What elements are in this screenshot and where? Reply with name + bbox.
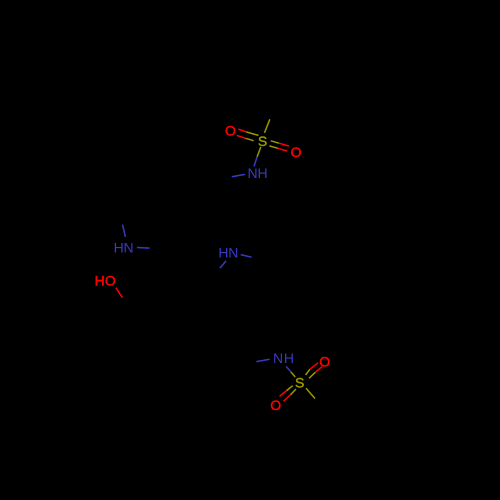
svg-text:N: N [248,165,258,181]
svg-text:S: S [258,133,267,149]
svg-text:N: N [124,239,134,255]
bond N1-C (N half) [232,174,245,176]
svg-text:N: N [228,245,238,261]
bond S1=O1 double bond line B [246,138,254,140]
bond S2-CH3 (S half) [306,388,315,398]
bond N2-C right stub [137,247,150,250]
bond S1-N1 (N half) [254,157,257,167]
bond N2-C up stub (indole NH left) [123,225,126,237]
svg-text:O: O [319,353,330,369]
bond S2=O4 double bond line A [306,369,310,375]
bond S1-CH3 (sulfonyl methyl, S half) [265,119,270,133]
svg-text:H: H [284,350,294,366]
bond N3-C down-left stub [220,261,226,268]
bond N3-C right stub (middle NH) [241,255,252,258]
svg-text:H: H [95,273,105,289]
bond O3-C stub (hydroxyl) [116,288,123,298]
bond S2=O4 double bond line B [309,372,315,378]
svg-text:O: O [105,273,116,289]
svg-text:O: O [270,397,281,413]
svg-text:H: H [218,245,228,261]
svg-text:H: H [258,165,268,181]
bond S2=O5 double bond line A [287,386,293,391]
svg-text:H: H [114,239,124,255]
bond N4-C left stub (bottom sulfonamide) [256,359,269,361]
bond N4-S2 (N half) [286,367,291,372]
svg-text:O: O [291,144,302,160]
bond S1=O2 double bond line B [269,146,278,148]
bond S2=O5 double bond line B [291,389,296,395]
svg-text:S: S [295,374,304,390]
bond S1=O1 double bond line A [247,132,259,135]
svg-text:N: N [273,350,283,366]
bond S1-N1 (S half) [257,147,261,157]
bond N4-S2 (S half) [291,372,295,377]
bond S1=O2 double bond line A [271,141,279,143]
svg-text:O: O [225,123,236,139]
